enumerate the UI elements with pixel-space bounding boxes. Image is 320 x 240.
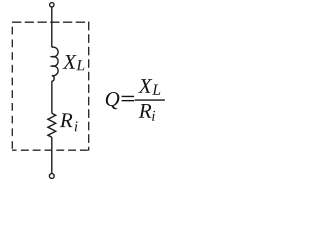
label XL : subscript L — [76, 60, 84, 70]
terminal bottom — [49, 174, 54, 179]
label XL : X — [63, 55, 77, 69]
equation denominator subscript i — [152, 111, 155, 121]
equation equals sign — [122, 96, 135, 102]
terminal top — [50, 3, 54, 7]
dashed box bottom edge corner dash — [12, 149, 17, 151]
label Ri : subscript i — [75, 121, 78, 131]
label Ri : R — [60, 113, 73, 127]
dashed box bottom edge — [21, 149, 89, 151]
dashed box left edge — [11, 22, 13, 150]
equation Q — [106, 92, 120, 109]
dashed box top edge — [12, 21, 89, 23]
equation fraction bar — [135, 99, 165, 101]
equation numerator X — [138, 79, 152, 93]
wire bottom — [51, 137, 53, 173]
dashed box right edge — [88, 22, 90, 151]
wire middle — [51, 81, 53, 113]
inductor XL coil — [52, 47, 58, 81]
equation denominator R — [139, 104, 152, 118]
resistor Ri zigzag — [48, 113, 56, 137]
equation numerator subscript L — [152, 85, 160, 95]
wire top — [51, 7, 53, 47]
